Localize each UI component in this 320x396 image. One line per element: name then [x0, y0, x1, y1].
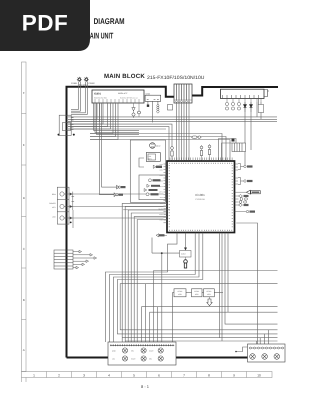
right side pin group 1: [238, 164, 253, 170]
svg-text:AIN UNIT: AIN UNIT: [90, 31, 114, 41]
svg-text:IC801: IC801: [94, 93, 101, 96]
striped connector CN802 top: [174, 84, 192, 103]
CN804 top pin row: [111, 344, 175, 346]
resistor R104 above IC101: [208, 144, 211, 161]
svg-text:A: A: [23, 348, 25, 352]
pin bracket right of transistor block: [72, 192, 75, 228]
svg-text:POWER: POWER: [49, 202, 56, 205]
long horizontal lower bus loops: [120, 271, 277, 345]
left ruler: [22, 62, 27, 372]
IC101 top pins: [170, 158, 232, 162]
reset IC cluster inside: [144, 179, 160, 196]
IC101 bottom pin wires: [105, 233, 277, 344]
small regulator box IC803: [145, 95, 161, 101]
IC101 left pin labels: [159, 163, 164, 222]
bus B lines into IC101 top: [90, 134, 230, 161]
IC801 box: [92, 90, 144, 103]
svg-text:3: 3: [83, 373, 85, 377]
down arrow below filter: [207, 297, 212, 306]
svg-text:2: 2: [58, 373, 60, 377]
svg-text:MAIN BLOCK: MAIN BLOCK: [104, 73, 145, 80]
top right connector CN803: [221, 89, 265, 102]
star wires down to left connector cluster: [71, 82, 87, 115]
IC101 right wire loop: [236, 223, 257, 348]
PDF badge: [0, 0, 90, 51]
right single pin circle: [246, 210, 255, 212]
svg-text:REM: REM: [52, 193, 56, 196]
IC801 pin wires: staircase to left bus: [68, 103, 118, 140]
svg-text:MAIN uPC: MAIN uPC: [118, 92, 128, 95]
right diamonds cluster: [239, 195, 249, 207]
three filter boxes row: [172, 289, 223, 342]
wire from X101: [139, 158, 144, 167]
star PS802: [84, 77, 89, 82]
connector pin CN1 mid-left: [102, 185, 126, 189]
svg-text:F: F: [23, 91, 25, 95]
svg-text:4: 4: [108, 373, 110, 377]
svg-text:8: 8: [208, 373, 210, 377]
CN802 wires down to IC101: [177, 102, 190, 160]
svg-text:PS801: PS801: [71, 82, 78, 85]
star PS801: [77, 77, 82, 82]
svg-text:5: 5: [133, 373, 135, 377]
svg-text:8 - 1: 8 - 1: [141, 384, 150, 389]
CN803 down wires: [245, 99, 261, 165]
transistor Q102 circle: [150, 143, 156, 149]
IC101 main microprocessor: [167, 161, 235, 233]
component block right of IC101 top: [232, 139, 246, 152]
IC101 right pins: [235, 164, 247, 212]
connector pin CN2 mid-left: [100, 193, 124, 197]
bus A lines going right: [68, 117, 277, 161]
svg-text:10: 10: [257, 373, 261, 377]
svg-text:215-FX10F/10S/10N/10U: 215-FX10F/10S/10N/10U: [147, 75, 205, 81]
bracket wires left of component block: [219, 139, 236, 161]
svg-text:1: 1: [33, 373, 35, 377]
small box below CN803 right: [258, 105, 263, 113]
IC801 long down wires: [94, 103, 140, 195]
resistor R103 above IC101: [200, 145, 203, 161]
spring contact below IC803: [156, 105, 159, 114]
sub-circuit enclosure box: [130, 140, 165, 202]
svg-text:IC803: IC803: [145, 93, 150, 96]
capacitor C103 above IC101: [191, 136, 202, 139]
svg-text:6: 6: [158, 373, 160, 377]
bottom-left connector CN804: [108, 342, 176, 365]
left connector CN801 cluster: [59, 115, 73, 135]
svg-text:DIAGRAM: DIAGRAM: [94, 16, 125, 26]
X101 crystal box: [146, 153, 160, 162]
svg-text:E: E: [23, 143, 25, 147]
resistor array RA801: [54, 250, 73, 269]
svg-text:PDF: PDF: [22, 11, 69, 36]
svg-text:Q102: Q102: [156, 145, 160, 148]
thick main block border: [67, 87, 279, 358]
junction dots: [58, 134, 60, 136]
svg-text:IC1001: IC1001: [195, 193, 205, 197]
bracket right of CN803: [264, 90, 270, 97]
CN805 top pin dots: [250, 347, 284, 349]
lower-left enclosure partial box: [123, 209, 170, 211]
right arrow label: [246, 190, 260, 194]
transistor block Q801-803: [57, 187, 72, 224]
svg-text:CXP85116: CXP85116: [195, 198, 205, 201]
CN804 screw terminals: [122, 348, 163, 361]
diode D801 below IC801: [132, 103, 135, 118]
arrow label right of X101: [153, 165, 162, 168]
IC101 left pins: [164, 164, 168, 223]
zener diodes below CN803: [244, 102, 253, 112]
IC102 small box with down-arrow feed: [180, 248, 192, 269]
IC101 left staircase down wires: [122, 203, 167, 342]
right side pin group 2: [238, 178, 253, 185]
wire into IC102 from left with junction: [152, 238, 180, 343]
RA801 arrows: [73, 250, 97, 269]
svg-text:B: B: [23, 298, 25, 302]
svg-text:7: 7: [183, 373, 185, 377]
resistor R801 right of IC801: [168, 105, 173, 111]
capacitors below CN803: [225, 102, 240, 110]
arrow label below IC101: [156, 234, 167, 237]
resistor R102 above IC101: [171, 146, 174, 161]
svg-text:IC802: IC802: [181, 253, 186, 256]
CN805 screw terminals: [250, 354, 280, 360]
wire into CN805 left: [236, 347, 248, 352]
bottom ruler: [22, 372, 273, 383]
bottom-right connector CN805: [248, 344, 286, 362]
transistor block wires right: [72, 194, 164, 218]
svg-text:PS802: PS802: [89, 82, 96, 85]
svg-text:9: 9: [233, 373, 235, 377]
capacitor C801 below IC801: [138, 103, 141, 117]
